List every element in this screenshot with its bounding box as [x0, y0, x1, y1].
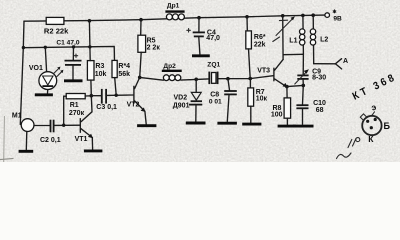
svg-text:C8: C8 — [210, 91, 219, 98]
svg-text:68: 68 — [316, 107, 324, 114]
svg-text:9В: 9В — [333, 15, 342, 22]
resistor R*4 56k — [112, 60, 130, 95]
inductor L1 (tuning arrow) — [273, 15, 305, 54]
junction VO1 top — [44, 46, 47, 49]
svg-text:Д901: Д901 — [173, 102, 190, 109]
junction C1 top — [72, 45, 75, 48]
resistor R3 10k — [87, 47, 106, 96]
svg-text:R3: R3 — [95, 63, 104, 70]
annotation transistor pinout — [337, 102, 391, 159]
svg-text:VD2: VD2 — [174, 94, 188, 101]
capacitor C1 47,0 — [56, 39, 81, 79]
wire C1/VO1/R3 line — [23, 46, 114, 60]
junction rail-R2 right — [88, 19, 92, 23]
svg-text:VO1: VO1 — [29, 65, 43, 72]
LED VO1 — [29, 47, 64, 93]
resistor R5 2,2k — [138, 20, 160, 78]
capacitor C3 0,1 — [91, 89, 117, 111]
svg-text:A: A — [343, 58, 348, 65]
resistor R2 22k — [44, 17, 69, 35]
wire VT2 collector to Dr2 — [140, 77, 164, 80]
svg-text:8-30: 8-30 — [312, 75, 326, 82]
junction rail-R5 — [139, 18, 143, 22]
ground VD2 — [186, 122, 206, 125]
junction R3 top — [88, 45, 91, 48]
svg-text:2 2к: 2 2к — [147, 44, 161, 51]
svg-text:Б: Б — [384, 121, 391, 131]
ground VT2 — [137, 124, 156, 127]
varicap VD2 D901 — [173, 79, 203, 121]
svg-text:R*4: R*4 — [118, 63, 130, 70]
scan artifact left edge — [3, 116, 6, 162]
junction bus-line — [22, 46, 25, 49]
wire R2 node to C1 line — [88, 21, 91, 47]
junction rail-R6 — [245, 15, 249, 19]
svg-text:100: 100 — [271, 111, 283, 118]
junction VD2 tap — [194, 78, 198, 82]
junction R4-VT2 base — [115, 94, 118, 97]
ground C8 — [217, 122, 237, 125]
trimmer capacitor C9 8-30 — [295, 54, 326, 85]
ground M1 — [19, 150, 34, 153]
ground C10 — [293, 125, 314, 128]
svg-text:L2: L2 — [320, 37, 328, 44]
svg-text:56k: 56k — [118, 71, 130, 78]
resistor R8 100 — [271, 87, 291, 125]
junction rail-VT3 collector — [281, 14, 285, 18]
svg-text:VT2: VT2 — [127, 102, 140, 109]
junction R6/R7 node — [248, 77, 252, 81]
svg-text:10к: 10к — [256, 96, 268, 103]
svg-text:C1 47,0: C1 47,0 — [56, 39, 79, 46]
svg-text:Др1: Др1 — [167, 3, 180, 10]
transistor VT3 — [257, 16, 287, 88]
resistor R1 270k — [64, 94, 92, 126]
svg-text:270к: 270к — [69, 110, 85, 117]
junction rail-L2 — [311, 13, 315, 17]
capacitor C8 0,01 — [209, 79, 237, 122]
svg-text:47,0: 47,0 — [206, 35, 220, 42]
wire C2 to VT1 base — [54, 124, 81, 126]
resistor R6* 22k — [246, 17, 266, 79]
wire ZQ1 to VT3 base — [218, 76, 274, 79]
inductor L2 — [310, 15, 328, 64]
svg-text:C3 0,1: C3 0,1 — [96, 104, 117, 111]
transistor VT1 — [75, 96, 93, 150]
svg-text:L1: L1 — [289, 38, 297, 45]
svg-text:10k: 10k — [95, 71, 107, 78]
antenna A — [314, 58, 348, 69]
resistor R7 10k — [248, 79, 268, 123]
wire emitter node to C9/C10 node — [287, 85, 303, 86]
junction C9/C10 node — [302, 84, 306, 88]
capacitor C4 47,0 — [187, 18, 220, 55]
junction C8 tap — [226, 77, 230, 81]
ground C4 — [192, 54, 210, 57]
ground C1 — [64, 79, 83, 82]
transistor VT2 — [127, 77, 147, 124]
svg-text:VT1: VT1 — [75, 136, 88, 143]
choke Dr1 — [165, 3, 184, 20]
annotation handwritten KT 368 — [351, 71, 399, 102]
svg-text:VT3: VT3 — [257, 68, 270, 75]
svg-text:ZQ1: ZQ1 — [207, 61, 220, 68]
terminal +9V — [325, 10, 342, 23]
microphone M1 — [12, 112, 34, 149]
wire M1 to C2 — [34, 125, 51, 127]
svg-text:0 01: 0 01 — [209, 98, 222, 105]
svg-text:C10: C10 — [313, 100, 326, 107]
paper noise — [0, 0, 400, 162]
ground VO1 — [35, 93, 53, 96]
wire C3 to VT2 base — [106, 94, 134, 96]
scan artifact bottom left — [0, 158, 14, 159]
junction VT3 emitter node — [285, 85, 289, 89]
svg-text:R6*: R6* — [254, 34, 266, 41]
junction VT1 collector node — [90, 94, 94, 98]
ground VT1 — [84, 149, 103, 152]
junction rail-L1 — [301, 14, 305, 18]
choke Dr2 — [162, 63, 182, 81]
capacitor C2 0,1 — [40, 120, 61, 144]
wire left bus — [20, 21, 24, 125]
crystal ZQ1 — [207, 61, 220, 84]
wire +9V top rail — [24, 15, 325, 21]
ground R7 — [242, 123, 261, 126]
svg-text:C2 0,1: C2 0,1 — [40, 137, 61, 144]
junction VT2 collector node — [138, 76, 142, 80]
svg-text:M1: M1 — [12, 112, 22, 119]
svg-text:К: К — [368, 134, 374, 144]
junction R1-base — [62, 124, 65, 127]
svg-text:22k: 22k — [254, 42, 266, 49]
capacitor C10 68 — [296, 85, 326, 124]
svg-text:Др2: Др2 — [163, 63, 176, 70]
svg-text:R2 22k: R2 22k — [44, 27, 69, 36]
wire Dr2 to ZQ1 — [181, 79, 209, 80]
svg-text:R1: R1 — [70, 102, 79, 109]
junction rail-C4 — [197, 16, 201, 20]
wire collector to tank — [283, 53, 303, 55]
ground R8 — [278, 125, 296, 128]
